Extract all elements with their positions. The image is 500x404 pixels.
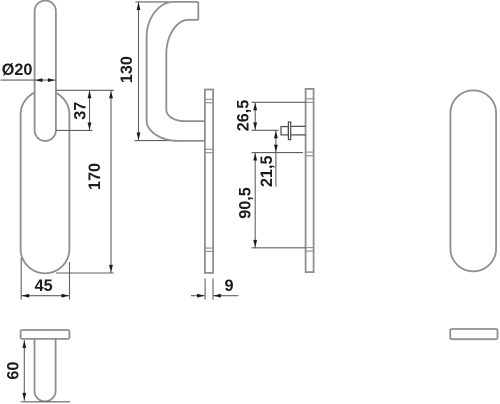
dim 130 (138, 2, 140, 140)
svg-text:26,5: 26,5 (235, 100, 253, 132)
dim Ø20 line (1, 79, 56, 81)
dim 60 (23, 340, 25, 401)
plate 1 seam ticks middle (205, 148, 213, 150)
extension line knob centre (252, 129, 279, 131)
extension line plate2 bottom tick (252, 247, 306, 249)
dim 130 extension lines (135, 1, 175, 3)
dim 45 (21, 295, 69, 297)
plate 2 seam ticks bottom (306, 247, 314, 249)
plate 2 side view (inside) (306, 89, 314, 272)
plate 1 seam ticks bottom (205, 247, 213, 249)
plate 2 seam ticks middle (306, 151, 314, 153)
svg-text:170: 170 (86, 163, 104, 190)
lever handle side view outer contour (147, 2, 205, 141)
svg-text:130: 130 (118, 56, 136, 83)
handle grip front view (vertical capsule) (35, 1, 56, 141)
dim 21,5 with text shelf (275, 130, 277, 152)
svg-text:9: 9 (224, 277, 233, 295)
extension line plate2 middle tick (252, 152, 304, 154)
svg-text:60: 60 (4, 362, 22, 380)
lever handle neck end cap (197, 2, 199, 20)
svg-text:45: 45 (35, 277, 53, 295)
plate 2 seam ticks top (306, 98, 314, 100)
plate 1 side view (handle side) (205, 90, 213, 273)
turn knob cap (281, 127, 288, 135)
dim 170 (110, 90, 112, 272)
dim 9 (191, 295, 205, 297)
extension line plate2 top tick (252, 101, 306, 103)
plate 1 seam ticks top (205, 98, 213, 100)
svg-text:21,5: 21,5 (258, 155, 276, 187)
extension lines 45 (20, 258, 22, 300)
svg-text:90,5: 90,5 (237, 187, 255, 219)
dim 90,5 (254, 153, 256, 248)
inside plate top view (bottom right) (450, 329, 497, 339)
dim 26,5 (254, 102, 256, 130)
svg-text:37: 37 (72, 102, 90, 120)
bottom knob cap plate (side view) (21, 330, 70, 339)
extension line 37 bottom (56, 129, 93, 131)
turn knob stem (291, 125, 306, 127)
inside plate front view (far right) (450, 90, 496, 271)
bottom knob cylinder (35, 339, 56, 401)
extension line 170 bottom (56, 272, 114, 274)
extension line top (37/170) (56, 89, 114, 91)
extension line knob bottom (21, 401, 70, 403)
extension lines 9 (204, 279, 206, 300)
lever handle side view inner contour (166, 20, 205, 121)
svg-text:Ø20: Ø20 (2, 61, 33, 79)
turn knob flange (288, 122, 290, 140)
backplate front view (left, handle side) (21, 90, 70, 273)
dim 37 (89, 90, 91, 130)
